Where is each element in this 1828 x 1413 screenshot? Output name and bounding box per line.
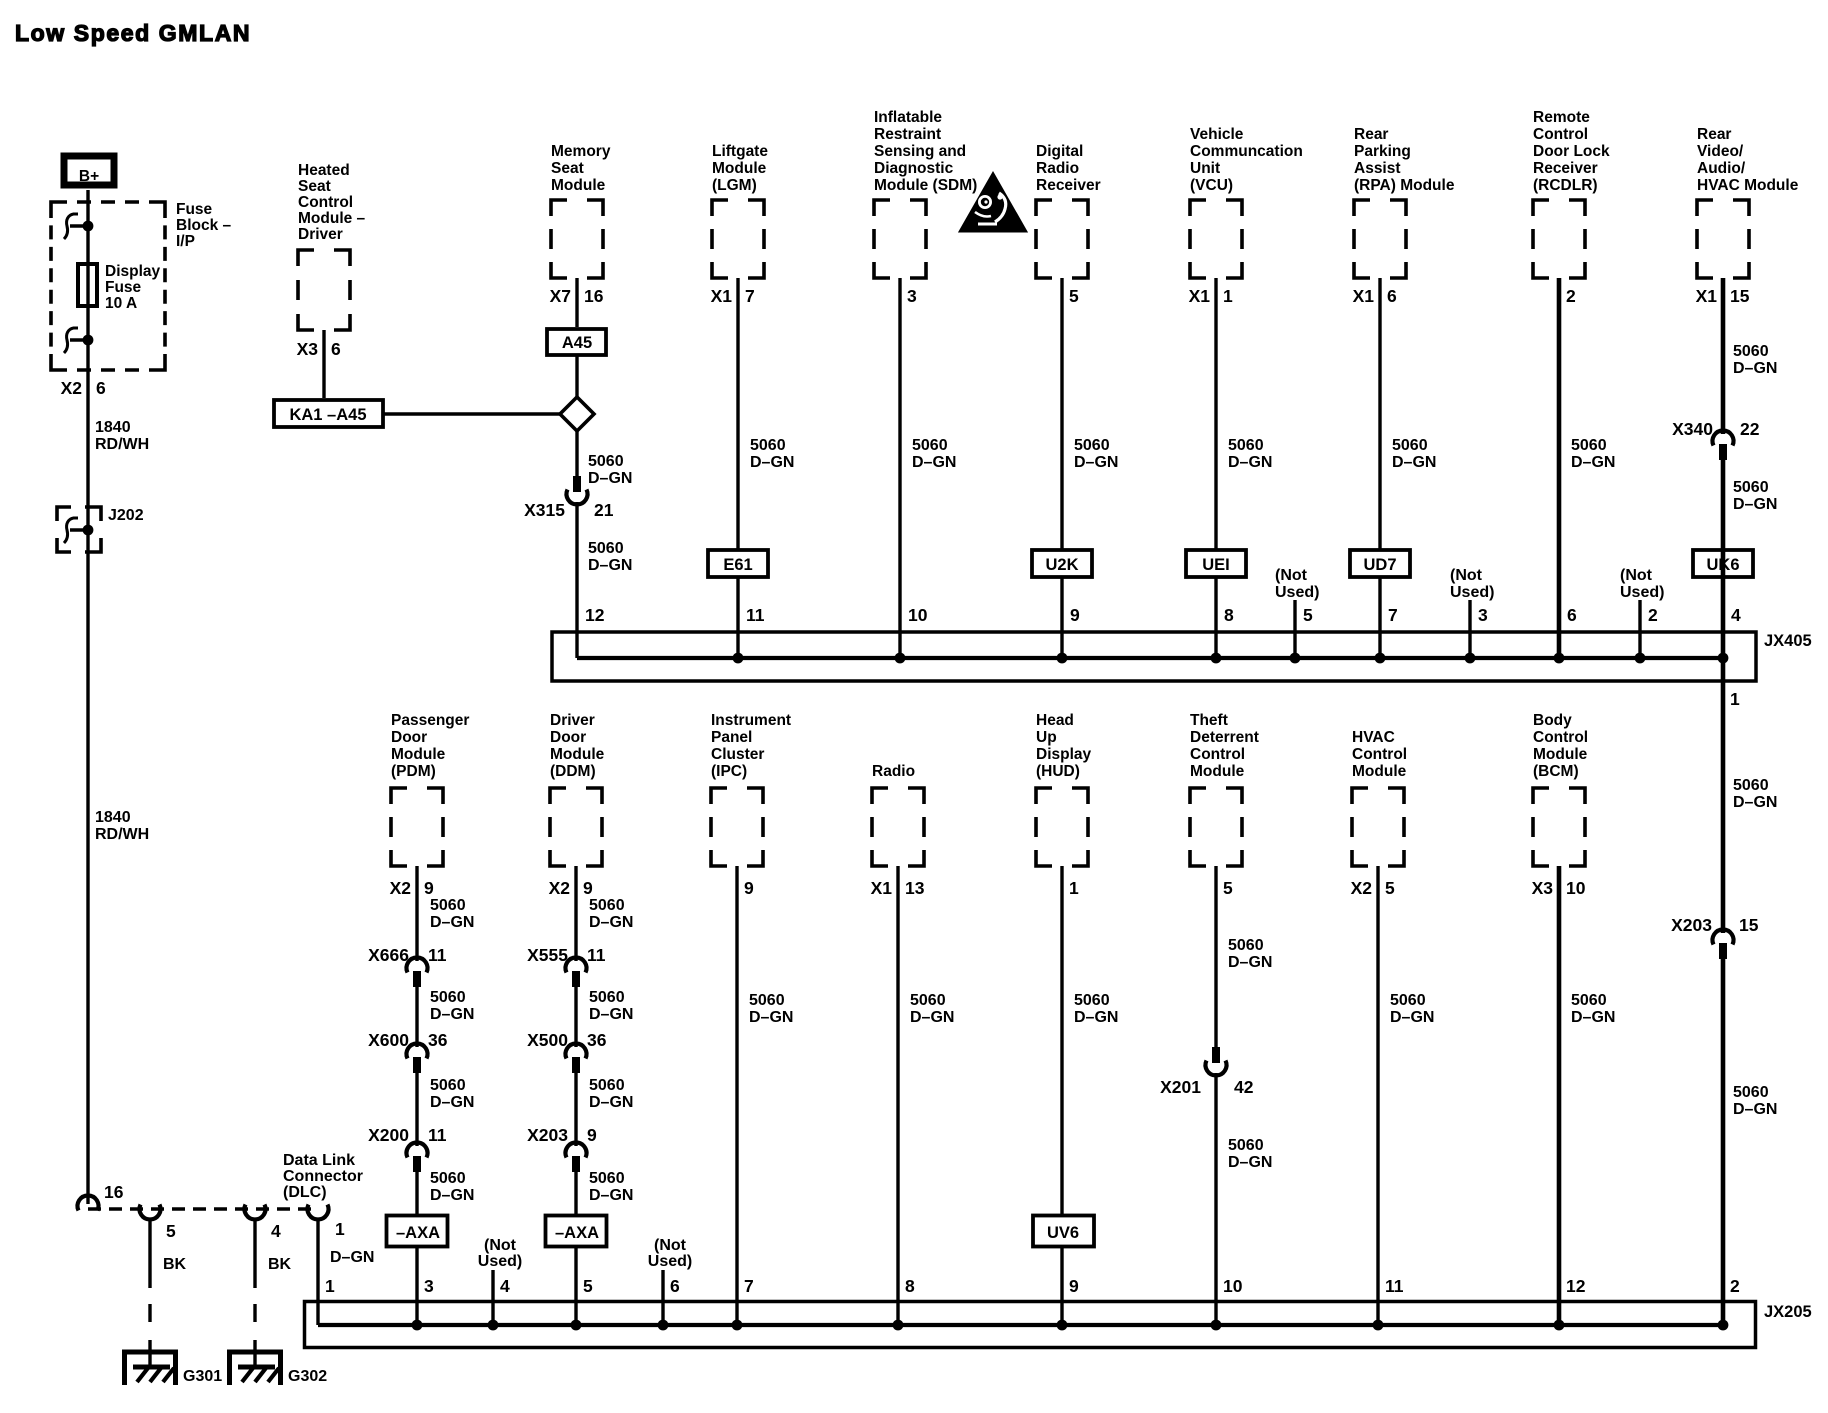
svg-text:5060: 5060 (1228, 437, 1264, 454)
svg-text:22: 22 (1740, 419, 1760, 439)
svg-text:5060: 5060 (588, 540, 624, 557)
svg-text:Display: Display (105, 263, 161, 280)
svg-text:(Not: (Not (484, 1237, 517, 1254)
svg-text:Radio: Radio (872, 763, 915, 780)
svg-text:5060: 5060 (1733, 343, 1769, 360)
svg-text:9: 9 (424, 878, 434, 898)
svg-text:Instrument: Instrument (711, 712, 791, 729)
svg-text:Data Link: Data Link (283, 1152, 355, 1169)
svg-text:U2K: U2K (1045, 556, 1078, 574)
svg-text:D–GN: D–GN (1228, 454, 1272, 471)
svg-text:5: 5 (1303, 605, 1313, 625)
svg-text:5060: 5060 (1228, 937, 1264, 954)
svg-text:10: 10 (1566, 878, 1586, 898)
svg-text:Door: Door (550, 729, 586, 746)
svg-text:X1: X1 (1189, 286, 1211, 306)
svg-text:Cluster: Cluster (711, 746, 764, 763)
svg-text:Fuse: Fuse (105, 279, 142, 296)
svg-text:1840: 1840 (95, 809, 131, 826)
svg-text:9: 9 (744, 878, 754, 898)
svg-text:–AXA: –AXA (555, 1224, 599, 1242)
svg-text:HVAC Module: HVAC Module (1697, 177, 1799, 194)
svg-text:–AXA: –AXA (396, 1224, 440, 1242)
svg-text:D–GN: D–GN (1733, 1101, 1777, 1118)
svg-text:6: 6 (331, 339, 341, 359)
svg-text:4: 4 (271, 1221, 281, 1241)
svg-text:5: 5 (583, 1276, 593, 1296)
svg-text:D–GN: D–GN (1733, 794, 1777, 811)
svg-text:UEI: UEI (1202, 556, 1230, 574)
svg-text:Communcation: Communcation (1190, 143, 1303, 160)
svg-text:Module: Module (1533, 746, 1588, 763)
svg-text:Module: Module (1190, 763, 1245, 780)
svg-text:D–GN: D–GN (1733, 496, 1777, 513)
svg-text:Digital: Digital (1036, 143, 1083, 160)
svg-text:D–GN: D–GN (1228, 1154, 1272, 1171)
svg-text:Module: Module (551, 177, 606, 194)
svg-text:Used): Used) (478, 1253, 522, 1270)
svg-text:1: 1 (325, 1276, 335, 1296)
svg-text:D–GN: D–GN (749, 1009, 793, 1026)
svg-text:J202: J202 (108, 507, 144, 524)
svg-text:5060: 5060 (430, 897, 466, 914)
svg-text:UV6: UV6 (1047, 1224, 1079, 1242)
svg-text:Restraint: Restraint (874, 126, 941, 143)
svg-text:8: 8 (905, 1276, 915, 1296)
svg-text:BK: BK (163, 1256, 187, 1273)
svg-text:5060: 5060 (912, 437, 948, 454)
svg-text:5060: 5060 (1571, 437, 1607, 454)
svg-text:5060: 5060 (1074, 437, 1110, 454)
svg-text:Control: Control (298, 194, 353, 211)
svg-text:G301: G301 (183, 1368, 222, 1385)
svg-text:Up: Up (1036, 729, 1057, 746)
svg-text:(Not: (Not (654, 1237, 687, 1254)
svg-text:5: 5 (1223, 878, 1233, 898)
svg-text:9: 9 (1070, 605, 1080, 625)
svg-text:10: 10 (908, 605, 928, 625)
svg-text:X2: X2 (1351, 878, 1373, 898)
svg-text:X203: X203 (1671, 915, 1712, 935)
svg-text:X600: X600 (368, 1030, 409, 1050)
svg-text:12: 12 (1566, 1276, 1586, 1296)
svg-text:11: 11 (746, 605, 765, 625)
svg-text:7: 7 (1388, 605, 1398, 625)
svg-text:3: 3 (907, 286, 917, 306)
svg-text:RD/WH: RD/WH (95, 826, 149, 843)
svg-text:Module: Module (391, 746, 446, 763)
svg-text:Panel: Panel (711, 729, 752, 746)
svg-text:D–GN: D–GN (588, 557, 632, 574)
svg-text:BK: BK (268, 1256, 292, 1273)
svg-text:1: 1 (1223, 286, 1233, 306)
svg-text:(Not: (Not (1620, 567, 1653, 584)
svg-text:Diagnostic: Diagnostic (874, 160, 954, 177)
svg-text:Fuse: Fuse (176, 201, 213, 218)
svg-text:10: 10 (1223, 1276, 1243, 1296)
svg-text:D–GN: D–GN (1390, 1009, 1434, 1026)
svg-text:Theft: Theft (1190, 712, 1228, 729)
svg-text:(VCU): (VCU) (1190, 177, 1233, 194)
svg-text:(LGM): (LGM) (712, 177, 757, 194)
svg-text:D–GN: D–GN (1392, 454, 1436, 471)
svg-text:Rear: Rear (1697, 126, 1731, 143)
svg-text:JX405: JX405 (1764, 632, 1812, 650)
svg-text:X2: X2 (549, 878, 571, 898)
svg-text:Control: Control (1533, 126, 1588, 143)
svg-text:15: 15 (1730, 286, 1750, 306)
svg-text:Block –: Block – (176, 217, 232, 234)
svg-text:5060: 5060 (1228, 1137, 1264, 1154)
svg-text:Module –: Module – (298, 210, 366, 227)
svg-text:36: 36 (428, 1030, 448, 1050)
svg-text:6: 6 (1567, 605, 1577, 625)
svg-text:5: 5 (1069, 286, 1079, 306)
svg-text:KA1 –A45: KA1 –A45 (289, 406, 366, 424)
svg-text:11: 11 (428, 1125, 447, 1145)
svg-text:15: 15 (1739, 915, 1759, 935)
svg-text:D–GN: D–GN (589, 1006, 633, 1023)
svg-text:D–GN: D–GN (750, 454, 794, 471)
svg-text:D–GN: D–GN (1571, 1009, 1615, 1026)
svg-text:12: 12 (585, 605, 605, 625)
svg-text:Used): Used) (1275, 584, 1319, 601)
svg-text:7: 7 (745, 286, 755, 306)
svg-text:5060: 5060 (588, 453, 624, 470)
svg-text:X7: X7 (550, 286, 571, 306)
svg-text:Connector: Connector (283, 1168, 363, 1185)
svg-text:Module: Module (712, 160, 767, 177)
svg-text:D–GN: D–GN (1571, 454, 1615, 471)
svg-text:Display: Display (1036, 746, 1092, 763)
svg-text:I/P: I/P (176, 233, 195, 250)
svg-text:Unit: Unit (1190, 160, 1220, 177)
svg-text:D–GN: D–GN (430, 1006, 474, 1023)
svg-text:21: 21 (594, 500, 614, 520)
svg-text:(Not: (Not (1275, 567, 1308, 584)
svg-text:D–GN: D–GN (589, 1187, 633, 1204)
svg-text:5060: 5060 (589, 897, 625, 914)
svg-text:D–GN: D–GN (430, 1187, 474, 1204)
svg-text:5060: 5060 (1074, 992, 1110, 1009)
svg-text:Receiver: Receiver (1036, 177, 1101, 194)
svg-text:D–GN: D–GN (1074, 1009, 1118, 1026)
svg-text:X555: X555 (527, 945, 568, 965)
svg-text:A45: A45 (562, 334, 592, 352)
svg-text:Radio: Radio (1036, 160, 1079, 177)
svg-text:1: 1 (335, 1219, 345, 1239)
svg-text:5: 5 (166, 1221, 176, 1241)
svg-text:Rear: Rear (1354, 126, 1388, 143)
svg-text:X1: X1 (1353, 286, 1375, 306)
svg-text:8: 8 (1224, 605, 1234, 625)
svg-text:3: 3 (424, 1276, 434, 1296)
svg-text:D–GN: D–GN (589, 914, 633, 931)
svg-text:5: 5 (1385, 878, 1395, 898)
svg-text:1: 1 (1069, 878, 1079, 898)
svg-text:E61: E61 (723, 556, 752, 574)
svg-text:B+: B+ (79, 168, 99, 185)
svg-text:X666: X666 (368, 945, 409, 965)
svg-text:X1: X1 (1696, 286, 1718, 306)
svg-text:Heated: Heated (298, 162, 350, 179)
svg-text:D–GN: D–GN (1733, 360, 1777, 377)
svg-text:G302: G302 (288, 1368, 327, 1385)
svg-text:9: 9 (1069, 1276, 1079, 1296)
svg-text:Module: Module (1352, 763, 1407, 780)
svg-text:Assist: Assist (1354, 160, 1401, 177)
svg-text:Inflatable: Inflatable (874, 109, 942, 126)
svg-text:Video/: Video/ (1697, 143, 1744, 160)
svg-text:Parking: Parking (1354, 143, 1411, 160)
svg-text:16: 16 (584, 286, 604, 306)
svg-text:5060: 5060 (749, 992, 785, 1009)
svg-text:Driver: Driver (550, 712, 595, 729)
svg-text:X340: X340 (1672, 419, 1713, 439)
svg-text:(IPC): (IPC) (711, 763, 747, 780)
svg-text:Driver: Driver (298, 226, 343, 243)
svg-text:Memory: Memory (551, 143, 611, 160)
svg-text:D–GN: D–GN (1074, 454, 1118, 471)
svg-text:11: 11 (428, 945, 447, 965)
svg-text:5060: 5060 (1392, 437, 1428, 454)
svg-text:2: 2 (1648, 605, 1658, 625)
svg-text:6: 6 (96, 378, 106, 398)
svg-text:Head: Head (1036, 712, 1074, 729)
svg-text:5060: 5060 (589, 989, 625, 1006)
svg-text:D–GN: D–GN (330, 1249, 374, 1266)
svg-text:11: 11 (1385, 1276, 1404, 1296)
svg-text:5060: 5060 (1390, 992, 1426, 1009)
svg-text:UD7: UD7 (1363, 556, 1396, 574)
svg-text:X3: X3 (297, 339, 319, 359)
svg-text:Remote: Remote (1533, 109, 1590, 126)
svg-text:5060: 5060 (430, 1077, 466, 1094)
svg-text:7: 7 (744, 1276, 754, 1296)
svg-text:10 A: 10 A (105, 295, 137, 312)
svg-text:5060: 5060 (589, 1170, 625, 1187)
svg-text:Module (SDM): Module (SDM) (874, 177, 977, 194)
svg-text:5060: 5060 (1733, 1084, 1769, 1101)
svg-text:Sensing and: Sensing and (874, 143, 966, 160)
svg-text:5060: 5060 (430, 1170, 466, 1187)
svg-text:Used): Used) (1450, 584, 1494, 601)
svg-text:4: 4 (500, 1276, 510, 1296)
svg-text:9: 9 (587, 1125, 597, 1145)
svg-text:3: 3 (1478, 605, 1488, 625)
svg-text:6: 6 (670, 1276, 680, 1296)
svg-text:Control: Control (1190, 746, 1245, 763)
svg-text:(PDM): (PDM) (391, 763, 436, 780)
svg-text:D–GN: D–GN (430, 1094, 474, 1111)
svg-text:5060: 5060 (910, 992, 946, 1009)
svg-text:(RPA) Module: (RPA) Module (1354, 177, 1455, 194)
svg-text:D–GN: D–GN (430, 914, 474, 931)
svg-text:Module: Module (550, 746, 605, 763)
svg-text:X3: X3 (1532, 878, 1554, 898)
svg-text:X1: X1 (711, 286, 733, 306)
svg-text:13: 13 (905, 878, 925, 898)
svg-text:2: 2 (1730, 1276, 1740, 1296)
svg-text:Used): Used) (648, 1253, 692, 1270)
svg-text:Seat: Seat (551, 160, 584, 177)
svg-text:Door Lock: Door Lock (1533, 143, 1610, 160)
svg-text:D–GN: D–GN (1228, 954, 1272, 971)
svg-text:42: 42 (1234, 1077, 1254, 1097)
svg-text:X200: X200 (368, 1125, 409, 1145)
svg-text:D–GN: D–GN (910, 1009, 954, 1026)
svg-text:5060: 5060 (1733, 777, 1769, 794)
svg-text:Audio/: Audio/ (1697, 160, 1746, 177)
svg-text:1840: 1840 (95, 419, 131, 436)
svg-text:5060: 5060 (1571, 992, 1607, 1009)
svg-text:Control: Control (1533, 729, 1588, 746)
svg-text:X500: X500 (527, 1030, 568, 1050)
svg-text:Vehicle: Vehicle (1190, 126, 1244, 143)
svg-text:Door: Door (391, 729, 427, 746)
svg-text:Seat: Seat (298, 178, 331, 195)
svg-text:5060: 5060 (750, 437, 786, 454)
svg-text:(HUD): (HUD) (1036, 763, 1080, 780)
svg-text:Receiver: Receiver (1533, 160, 1598, 177)
svg-text:5060: 5060 (1733, 479, 1769, 496)
svg-text:X1: X1 (871, 878, 893, 898)
svg-text:Liftgate: Liftgate (712, 143, 768, 160)
svg-text:D–GN: D–GN (588, 470, 632, 487)
svg-text:16: 16 (104, 1182, 124, 1202)
svg-text:Body: Body (1533, 712, 1572, 729)
svg-text:9: 9 (583, 878, 593, 898)
svg-text:Deterrent: Deterrent (1190, 729, 1259, 746)
svg-text:Low Speed GMLAN: Low Speed GMLAN (15, 20, 251, 46)
svg-text:Passenger: Passenger (391, 712, 469, 729)
svg-text:D–GN: D–GN (912, 454, 956, 471)
svg-text:D–GN: D–GN (589, 1094, 633, 1111)
svg-text:(Not: (Not (1450, 567, 1483, 584)
svg-text:5060: 5060 (430, 989, 466, 1006)
svg-text:X2: X2 (61, 378, 83, 398)
svg-text:(DDM): (DDM) (550, 763, 596, 780)
svg-text:5060: 5060 (589, 1077, 625, 1094)
svg-text:(DLC): (DLC) (283, 1184, 327, 1201)
svg-text:Used): Used) (1620, 584, 1664, 601)
svg-text:2: 2 (1566, 286, 1576, 306)
svg-text:X201: X201 (1160, 1077, 1201, 1097)
svg-text:(BCM): (BCM) (1533, 763, 1579, 780)
svg-text:(RCDLR): (RCDLR) (1533, 177, 1598, 194)
svg-text:1: 1 (1730, 689, 1740, 709)
svg-text:X2: X2 (390, 878, 412, 898)
svg-text:JX205: JX205 (1764, 1303, 1812, 1321)
svg-text:X203: X203 (527, 1125, 568, 1145)
svg-text:4: 4 (1731, 605, 1741, 625)
svg-text:Control: Control (1352, 746, 1407, 763)
svg-text:X315: X315 (524, 500, 565, 520)
svg-text:RD/WH: RD/WH (95, 436, 149, 453)
svg-text:HVAC: HVAC (1352, 729, 1395, 746)
svg-text:36: 36 (587, 1030, 607, 1050)
svg-text:6: 6 (1387, 286, 1397, 306)
svg-text:11: 11 (587, 945, 606, 965)
